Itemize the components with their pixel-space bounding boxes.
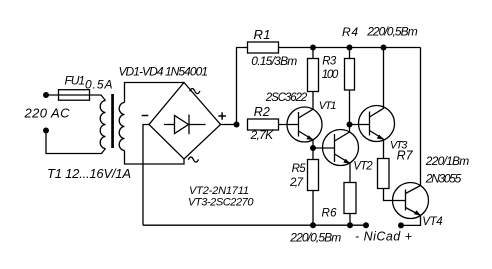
diode symbol triangle bbox=[175, 116, 189, 134]
wire: right edge from top rail down to VT4 collector bbox=[420, 48, 422, 186]
transistor VT1 collector bbox=[299, 109, 314, 118]
wire: junction to VT2 base bbox=[313, 147, 335, 149]
svg-text:- NiCad +: - NiCad + bbox=[355, 229, 412, 243]
node: AC input top terminal bbox=[43, 92, 49, 98]
svg-text:VT1: VT1 bbox=[319, 100, 337, 112]
svg-text:R2: R2 bbox=[254, 105, 270, 119]
node: battery minus terminal bbox=[363, 222, 369, 228]
svg-text:0.15/3Вт: 0.15/3Вт bbox=[251, 54, 297, 68]
resistor R6 bbox=[344, 183, 356, 214]
svg-text:220/0,5Вт: 220/0,5Вт bbox=[289, 231, 341, 245]
node: battery plus terminal bbox=[398, 222, 404, 228]
transistor VT3 collector bbox=[370, 48, 384, 118]
transistor VT2 base bar bbox=[334, 134, 336, 162]
wire: VT2 emitter down to R6 bbox=[349, 163, 351, 182]
transistor VT2 collector bbox=[335, 125, 350, 142]
svg-text:2SC3622: 2SC3622 bbox=[265, 92, 308, 104]
wire: VT4 emitter down to battery plus terminal bbox=[401, 215, 421, 225]
svg-text:FU1: FU1 bbox=[65, 74, 86, 88]
resistor R2 bbox=[248, 119, 279, 130]
svg-text:100: 100 bbox=[322, 69, 339, 81]
transistor VT3 circle bbox=[359, 106, 395, 142]
svg-text:220/0,5Вт: 220/0,5Вт bbox=[366, 25, 418, 39]
wire: R6 bottom to bottom rail bbox=[349, 214, 351, 226]
wire: top rail from R1 to right edge bbox=[279, 47, 421, 49]
svg-text:R1: R1 bbox=[254, 27, 271, 42]
node: R6 to bottom rail bbox=[347, 222, 353, 228]
wire: R2 to VT1 base bbox=[279, 124, 299, 126]
transistor VT2 circle bbox=[323, 130, 359, 166]
transformer T1 core bbox=[111, 94, 114, 148]
node: top rail at R4 bbox=[347, 45, 353, 51]
node: plus junction bbox=[234, 122, 240, 128]
wire: fuse to transformer primary top bbox=[90, 95, 106, 101]
node: top rail at R3 bbox=[310, 45, 316, 51]
transistor VT1 emitter with arrow bbox=[299, 131, 314, 140]
svg-text:R3: R3 bbox=[322, 56, 337, 68]
resistor R7 bbox=[378, 159, 390, 189]
svg-text:VT4: VT4 bbox=[422, 216, 443, 228]
resistor R4 bbox=[345, 59, 355, 91]
wire: bottom rail bbox=[143, 224, 366, 226]
svg-text:2N3055: 2N3055 bbox=[425, 171, 462, 185]
wire: R4 top stub bbox=[349, 48, 351, 59]
wire: R3 bottom to VT1 collector bbox=[312, 92, 314, 110]
resistor R1 bbox=[248, 42, 279, 53]
svg-text:R7: R7 bbox=[397, 149, 414, 163]
wire: junction to VT3 base bbox=[350, 124, 370, 126]
wire: AC bottom terminal down and right to primary bottom bbox=[46, 133, 106, 154]
svg-text:2,7: 2,7 bbox=[289, 177, 304, 189]
svg-text:220/1Вт: 220/1Вт bbox=[425, 154, 470, 168]
wire: secondary top lead up to bridge top bbox=[125, 83, 185, 103]
node: AC input bottom terminal bbox=[43, 128, 49, 134]
wire: junction up to R1 bbox=[237, 48, 248, 125]
diode symbol cathode bar bbox=[188, 115, 190, 135]
diode symbol inside bridge: anode wire bbox=[164, 124, 175, 126]
svg-text:220 AC: 220 AC bbox=[24, 106, 71, 121]
bridge rectifier VD1-VD4 diamond bbox=[149, 83, 221, 160]
wire: R4 bottom to VT2 collector junction bbox=[349, 90, 351, 125]
node: VT1 emitter / R5 / VT2 base junction bbox=[310, 145, 316, 151]
wire: junction down to R5 bbox=[312, 148, 314, 160]
svg-text:VT3-2SC2270: VT3-2SC2270 bbox=[188, 197, 254, 209]
bridge AC tilde bottom bbox=[188, 157, 198, 162]
svg-text:R5: R5 bbox=[292, 163, 307, 175]
svg-text:R4: R4 bbox=[342, 25, 358, 39]
node: R5 to bottom rail bbox=[310, 222, 316, 228]
wire: bridge plus output to junction bbox=[221, 124, 237, 126]
wire: secondary bottom lead down to bridge bottom bbox=[125, 151, 185, 165]
wire: VT3 emitter down to R7 bbox=[383, 139, 385, 158]
transistor VT2 emitter with arrow bbox=[335, 154, 351, 163]
wire: bridge minus output left and down to bottom rail bbox=[143, 125, 149, 226]
svg-text:VT2-2N1711: VT2-2N1711 bbox=[189, 185, 249, 197]
transistor VT4 emitter with arrow bbox=[406, 208, 421, 216]
transistor VT4 base bar bbox=[405, 190, 407, 211]
resistor R3 bbox=[308, 59, 319, 92]
bridge AC tilde top bbox=[190, 89, 200, 94]
transistor VT4 collector bbox=[406, 186, 421, 194]
transistor VT3 base bar bbox=[369, 112, 371, 136]
transistor VT3 emitter with arrow bbox=[370, 131, 384, 140]
wire: R5 bottom to bottom rail bbox=[312, 191, 314, 226]
bridge minus polarity sign bbox=[142, 115, 149, 117]
svg-text:VT2: VT2 bbox=[353, 161, 373, 173]
svg-text:VD1-VD4 1N54001: VD1-VD4 1N54001 bbox=[119, 65, 209, 79]
transformer T1 secondary winding bbox=[119, 103, 124, 151]
diode symbol cathode wire bbox=[189, 124, 206, 126]
resistor R5 bbox=[308, 160, 319, 191]
svg-text:R6: R6 bbox=[322, 208, 338, 220]
wire: R3 top stub bbox=[312, 48, 314, 59]
bridge plus polarity sign bbox=[218, 115, 226, 117]
node: top rail at VT3 collector bbox=[381, 45, 387, 51]
fuse FU1 bbox=[59, 90, 90, 101]
transformer T1 primary winding bbox=[100, 101, 105, 149]
transistor VT1 circle bbox=[287, 107, 322, 142]
wire: AC top terminal to fuse bbox=[46, 94, 90, 96]
wire: VT1 emitter to junction bbox=[312, 140, 314, 148]
wire: R7 bottom to VT4 base bbox=[384, 189, 406, 201]
transistor VT4 circle bbox=[393, 183, 429, 219]
svg-text:2,7K: 2,7K bbox=[250, 128, 274, 142]
transistor VT1 base bar bbox=[298, 112, 300, 137]
node: R4 / VT2 collector / VT3 base junction bbox=[347, 122, 353, 128]
svg-text:0.5A: 0.5A bbox=[85, 78, 113, 92]
svg-text:T1 12...16V/1A: T1 12...16V/1A bbox=[47, 166, 131, 181]
